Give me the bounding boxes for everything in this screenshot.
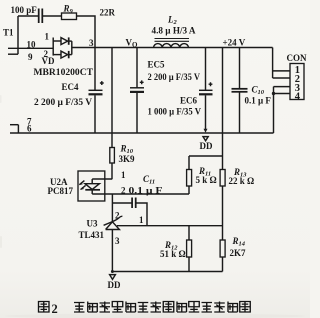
svg-text:1: 1 bbox=[121, 170, 126, 180]
svg-text:0.1 µ F: 0.1 µ F bbox=[245, 96, 272, 106]
svg-text:4: 4 bbox=[295, 91, 301, 102]
svg-text:22 k Ω: 22 k Ω bbox=[229, 176, 255, 186]
svg-text:DD: DD bbox=[200, 141, 213, 151]
svg-text:2 200 µ F/35 V: 2 200 µ F/35 V bbox=[34, 97, 93, 107]
svg-text:T1: T1 bbox=[3, 28, 14, 38]
svg-text:9: 9 bbox=[28, 52, 33, 62]
svg-text:6: 6 bbox=[27, 124, 32, 134]
svg-text:EC4: EC4 bbox=[62, 82, 80, 92]
svg-text:0.1 µ F: 0.1 µ F bbox=[129, 186, 164, 196]
svg-text:51 k Ω: 51 k Ω bbox=[160, 249, 186, 259]
svg-text:10: 10 bbox=[27, 40, 37, 50]
svg-text:3K9: 3K9 bbox=[119, 154, 136, 164]
svg-text:22R: 22R bbox=[100, 8, 116, 18]
svg-text:2: 2 bbox=[121, 186, 126, 196]
svg-text:2: 2 bbox=[52, 302, 58, 316]
svg-text:U3: U3 bbox=[87, 219, 98, 229]
svg-text:EC6: EC6 bbox=[180, 96, 198, 106]
svg-text:TL431: TL431 bbox=[79, 230, 105, 240]
svg-text:MBR10200CT: MBR10200CT bbox=[34, 67, 94, 77]
svg-text:CON: CON bbox=[287, 53, 308, 63]
svg-text:1 000 µ F/35 V: 1 000 µ F/35 V bbox=[148, 107, 202, 117]
svg-text:EC5: EC5 bbox=[148, 60, 166, 70]
svg-text:+24 V: +24 V bbox=[223, 38, 246, 48]
svg-text:1: 1 bbox=[139, 215, 144, 225]
svg-text:2: 2 bbox=[115, 211, 120, 221]
svg-text:4.8 µ H/3 A: 4.8 µ H/3 A bbox=[152, 26, 196, 36]
svg-text:3: 3 bbox=[115, 236, 120, 246]
svg-text:100 pF: 100 pF bbox=[11, 5, 38, 15]
svg-text:5 k Ω: 5 k Ω bbox=[196, 175, 217, 185]
svg-text:DD: DD bbox=[108, 280, 121, 290]
svg-text:3: 3 bbox=[89, 38, 94, 48]
svg-text:2 200 µ F/35 V: 2 200 µ F/35 V bbox=[148, 72, 201, 82]
svg-text:2K7: 2K7 bbox=[230, 248, 247, 258]
svg-text:1: 1 bbox=[45, 32, 50, 42]
svg-text:VD: VD bbox=[42, 56, 55, 66]
svg-text:PC817: PC817 bbox=[48, 186, 74, 196]
